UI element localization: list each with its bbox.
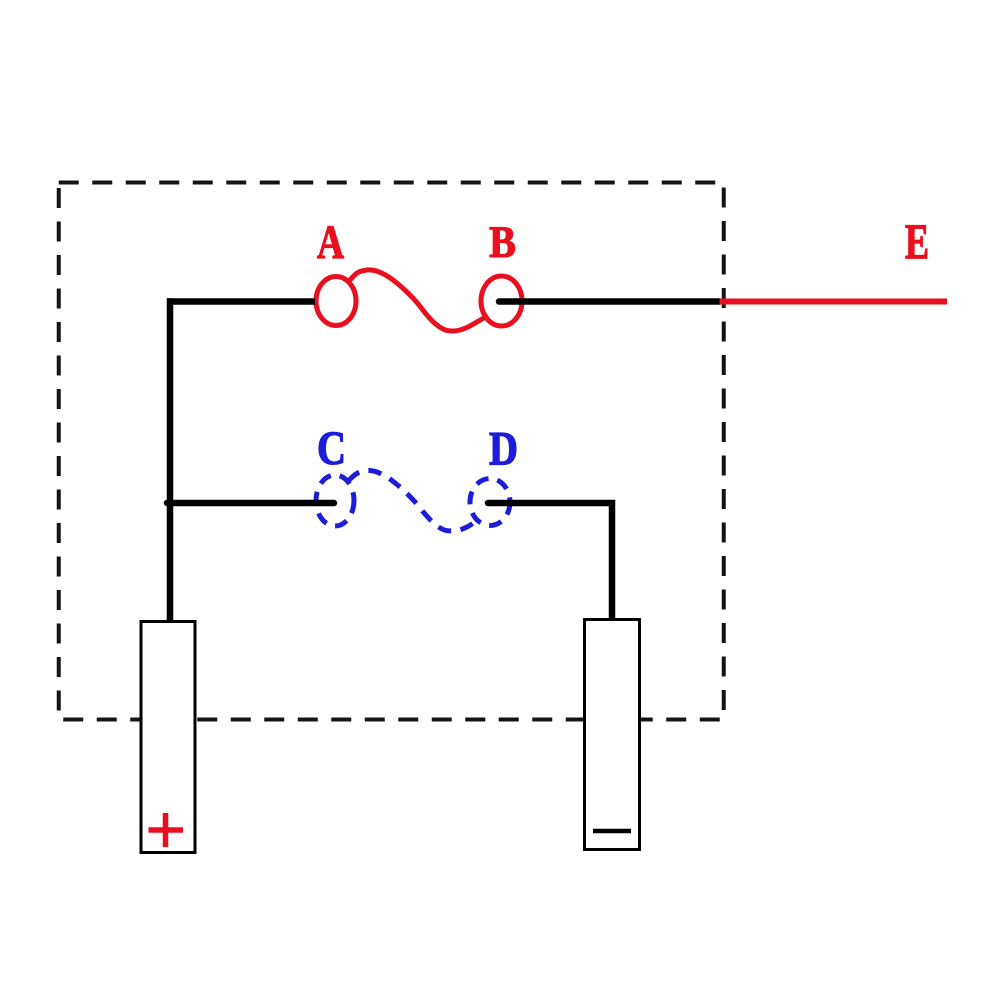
left electrode (+) [141,622,195,853]
wire: left vertical bus [167,298,174,621]
wire: from terminal D to right electrode [488,503,612,620]
svg-text:D: D [489,423,518,476]
svg-text:C: C [317,422,346,475]
wire: red external lead E [720,299,948,305]
terminal A (red loop) [316,277,356,326]
enclosure dashed box [59,183,724,720]
terminal B (red loop) [481,276,522,326]
wire: from terminal B to box edge [499,298,720,305]
wire: middle horizontal into terminal C [167,500,334,507]
svg-text:B: B [489,218,516,267]
red wavy wire A-B (closed switch) [350,270,489,331]
terminal C (blue dashed loop) [316,475,354,526]
blue dashed wavy wire C-D (alternate switch position) [349,470,480,531]
plus marking [149,813,184,847]
terminal D (blue dashed loop) [470,479,510,526]
wire: top horizontal from node to terminal A [167,298,315,305]
svg-text:A: A [317,216,344,269]
right electrode (-) [585,620,640,850]
svg-text:E: E [905,213,929,269]
minus marking [593,829,631,834]
